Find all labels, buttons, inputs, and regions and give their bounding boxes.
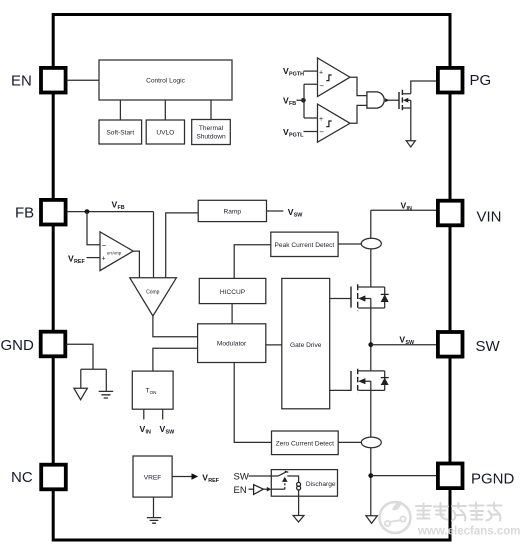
svg-text:errAmp: errAmp xyxy=(107,251,122,256)
wire TON to Modulator xyxy=(153,348,198,371)
block Peak Current Detect xyxy=(271,232,338,256)
wire PGND node to PGND pin xyxy=(371,475,437,477)
wire Q1 source to SW node xyxy=(370,308,372,371)
svg-text:PGND: PGND xyxy=(471,471,515,488)
svg-text:+: + xyxy=(319,70,323,77)
buffer (EN) xyxy=(254,485,264,495)
svg-text:NC: NC xyxy=(11,469,33,486)
wire Peak Current Detect to sense CS1 xyxy=(338,243,361,245)
svg-text:Discharge: Discharge xyxy=(306,481,336,488)
ground (earth) at GND xyxy=(99,391,114,398)
label VIN (rail) xyxy=(401,200,412,212)
svg-text:IN: IN xyxy=(146,430,151,436)
node SW dot xyxy=(368,342,373,347)
block Control Logic xyxy=(99,60,232,100)
svg-text:Modulator: Modulator xyxy=(217,341,247,348)
label VPGTL xyxy=(283,127,304,139)
wire Control Logic to UVLO xyxy=(164,100,166,120)
block HICCUP xyxy=(199,278,265,303)
wire CS2 to PGND node xyxy=(370,448,372,516)
wire SW node to SW pin xyxy=(371,344,437,346)
svg-text:Ramp: Ramp xyxy=(224,208,242,215)
svg-text:ON: ON xyxy=(150,390,157,395)
wire VFB net to comparator inputs xyxy=(297,84,318,118)
current sense CS1 xyxy=(361,238,381,249)
svg-text:FB: FB xyxy=(118,205,125,211)
svg-text:VREF: VREF xyxy=(144,475,162,482)
label VREF output xyxy=(202,472,219,484)
svg-text:Shutdown: Shutdown xyxy=(196,134,226,141)
wire Modulator to Zero Current Detect xyxy=(234,363,271,443)
wire errAmp output to Comp xyxy=(133,251,139,278)
AND gate U3 xyxy=(367,92,390,108)
wire AND gate to Q3 gate xyxy=(389,99,399,101)
pin FB xyxy=(15,200,66,225)
wire EN to Control Logic xyxy=(67,79,100,81)
node PGND dot xyxy=(368,473,373,478)
control arrow inside Discharge xyxy=(271,477,287,490)
current sense CS2 xyxy=(361,437,381,448)
wire Q2 source down to CS2 xyxy=(370,390,372,437)
svg-text:SW: SW xyxy=(166,430,176,436)
block Zero Current Detect xyxy=(272,431,339,455)
svg-text:IN: IN xyxy=(407,206,412,212)
svg-text:REF: REF xyxy=(208,478,219,484)
wire VREF to ground xyxy=(153,497,155,517)
wire VIN pin to rail xyxy=(371,209,437,211)
label VPGTH xyxy=(283,66,304,78)
op-amp errAmp xyxy=(100,232,133,271)
label VREF input xyxy=(68,254,85,266)
wire U2 output to AND gate xyxy=(350,105,367,123)
block TON xyxy=(132,371,173,409)
wire HICCUP to Modulator xyxy=(231,304,233,324)
wire Q3 drain to PG pin xyxy=(411,81,437,94)
block Gate Drive xyxy=(282,278,330,408)
svg-text:SW: SW xyxy=(476,338,501,355)
comparator Comp xyxy=(130,278,177,316)
label VFB xyxy=(112,200,125,212)
svg-text:EN: EN xyxy=(11,73,32,90)
node VFB dot xyxy=(301,98,306,103)
wire SW to discharge switch xyxy=(249,475,279,477)
block Modulator xyxy=(198,324,266,363)
svg-text:FB: FB xyxy=(15,205,34,222)
wire FB to errAmp inverting input xyxy=(87,212,100,245)
pin PG xyxy=(438,68,491,93)
wire Control Logic to Soft-Start xyxy=(119,100,121,120)
svg-text:UVLO: UVLO xyxy=(156,130,174,137)
wire EN to buffer xyxy=(249,488,254,490)
pin EN xyxy=(11,68,66,93)
wire Peak Current Detect to HICCUP xyxy=(234,245,271,279)
svg-text:PGTL: PGTL xyxy=(289,133,304,139)
wire Ramp VSW input xyxy=(267,210,284,212)
svg-text:www.elecfans.com: www.elecfans.com xyxy=(417,526,520,538)
label VSW (TON) xyxy=(160,424,176,436)
body diode D1 xyxy=(381,287,389,308)
body diode D2 xyxy=(381,371,389,391)
pin NC xyxy=(11,465,66,490)
svg-text:VIN: VIN xyxy=(477,209,502,226)
wire TON VSW input stub xyxy=(162,409,164,419)
svg-text:Gate Drive: Gate Drive xyxy=(290,342,322,349)
pin GND xyxy=(1,332,66,357)
label VFB (power good) xyxy=(283,96,296,108)
svg-text:−: − xyxy=(319,128,324,137)
svg-text:REF: REF xyxy=(74,259,85,265)
svg-text:−: − xyxy=(102,241,107,250)
wire Zero Current Detect to sense CS2 xyxy=(338,441,361,443)
wire VPGTL to comparator U2 xyxy=(304,131,318,133)
transistor Q3 (PG open-drain NMOS) xyxy=(399,90,411,110)
svg-text:FB: FB xyxy=(289,101,296,107)
wire Gate Drive to Q2 gate xyxy=(330,389,351,391)
current source I1 (discharge) xyxy=(297,482,301,490)
pin SW xyxy=(438,332,501,357)
wire CS1 to Q1 drain xyxy=(370,249,372,287)
block VREF xyxy=(133,456,172,497)
svg-text:Comp: Comp xyxy=(146,290,160,296)
ground (earth) at VREF xyxy=(147,518,161,524)
block UVLO xyxy=(146,120,184,144)
node FB dot xyxy=(85,209,90,214)
svg-text:Control Logic: Control Logic xyxy=(146,78,186,85)
ground (power) arrow on rail xyxy=(366,516,377,524)
switch S1 (discharge) xyxy=(271,471,298,482)
svg-text:GND: GND xyxy=(1,337,35,354)
wire VREF output arrow xyxy=(172,473,198,480)
transistor Q2 (low-side NMOS) xyxy=(351,369,385,393)
wire VREF to errAmp non-inverting input xyxy=(87,257,101,259)
svg-text:PGTH: PGTH xyxy=(289,72,304,78)
svg-text:HICCUP: HICCUP xyxy=(220,289,246,296)
svg-text:Zero Current Detect: Zero Current Detect xyxy=(276,441,334,448)
svg-text:Thermal: Thermal xyxy=(199,125,224,132)
wire VFB to Comp xyxy=(153,212,155,278)
block Discharge xyxy=(271,470,337,497)
wire TON VIN input stub xyxy=(143,409,145,419)
svg-text:EN: EN xyxy=(234,485,247,496)
label VIN (TON) xyxy=(140,424,151,436)
IC package outline xyxy=(53,15,450,541)
block Thermal Shutdown xyxy=(192,120,231,145)
comparator U1 (power-good high) xyxy=(318,58,351,97)
wire Modulator to Gate Drive xyxy=(266,344,282,346)
wire buffer to discharge control xyxy=(263,487,271,492)
wire VIN rail down to CS1 xyxy=(370,210,372,238)
wire Ramp to Comp xyxy=(166,213,199,278)
pin PGND xyxy=(438,464,515,489)
transistor Q1 (high-side NMOS) xyxy=(351,284,385,311)
wire GND pin to grounds xyxy=(67,344,107,391)
label VSW (ramp) xyxy=(288,207,304,219)
comparator U2 (power-good low) xyxy=(318,104,351,142)
svg-text:−: − xyxy=(319,82,324,91)
svg-text:PG: PG xyxy=(470,72,492,89)
wire U1 output to AND gate xyxy=(350,77,367,95)
svg-text:+: + xyxy=(102,256,106,263)
ground (signal) under Q3 xyxy=(406,141,415,147)
wire Gate Drive to Q1 gate xyxy=(330,298,351,300)
svg-text:SW: SW xyxy=(234,472,249,483)
block Ramp xyxy=(198,200,266,221)
pin VIN xyxy=(438,201,502,226)
svg-text:+: + xyxy=(319,116,323,123)
wire VPGTH to comparator U1 xyxy=(304,70,318,72)
svg-text:Peak Current Detect: Peak Current Detect xyxy=(275,242,335,249)
ground (signal triangle) at GND xyxy=(74,388,87,400)
wire FB net xyxy=(67,211,154,213)
svg-text:SW: SW xyxy=(294,212,304,218)
wire discharge to ground xyxy=(298,490,300,516)
block Soft-Start xyxy=(99,120,142,144)
label VSW (rail) xyxy=(399,335,415,347)
wire Q3 source to ground xyxy=(410,108,412,141)
wire Comp output to Modulator xyxy=(153,316,198,337)
ground (signal) under Discharge xyxy=(293,516,304,523)
svg-text:Soft-Start: Soft-Start xyxy=(106,130,134,137)
wire Control Logic to Thermal Shutdown xyxy=(210,100,212,120)
